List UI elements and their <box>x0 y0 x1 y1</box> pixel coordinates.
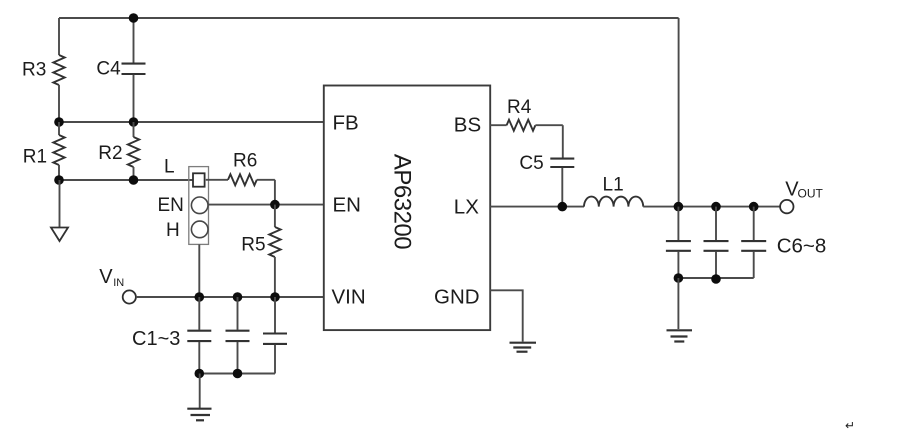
capacitor C3 <box>263 297 287 374</box>
ground (earth) input rail <box>187 374 211 421</box>
terminal VIN <box>99 266 136 304</box>
wire VIN rail to IC <box>136 296 324 298</box>
svg-text:C5: C5 <box>519 153 543 174</box>
resistor R2 <box>98 122 139 180</box>
svg-text:FB: FB <box>333 112 359 135</box>
wire R3 bottom stub <box>58 85 60 122</box>
capacitor C2 <box>226 297 250 374</box>
node dot L row / R2 <box>129 175 139 185</box>
svg-text:GND: GND <box>434 286 480 309</box>
node dot L row / R1 <box>54 175 64 185</box>
jumper pin EN (round pad) <box>191 197 208 214</box>
svg-text:R4: R4 <box>507 97 532 118</box>
capacitor C8 <box>741 207 766 278</box>
svg-text:C1~3: C1~3 <box>132 328 180 350</box>
svg-text:L: L <box>164 157 175 178</box>
resistor R1 <box>23 122 65 180</box>
terminal VOUT <box>780 178 823 213</box>
svg-text:R2: R2 <box>98 143 122 164</box>
node dot rail/C1 <box>195 369 205 379</box>
svg-text:H: H <box>166 220 180 241</box>
capacitor C4 <box>96 18 145 122</box>
resistor R6 <box>206 151 275 205</box>
wire EN row from jumper to IC <box>208 204 324 206</box>
node dot LX/C5 <box>558 202 568 212</box>
svg-text:↵: ↵ <box>845 419 855 433</box>
svg-text:LX: LX <box>454 196 479 219</box>
node dot top rail / C4 <box>129 13 139 23</box>
wire LX row from IC to L1 <box>490 206 584 208</box>
svg-text:L1: L1 <box>603 175 624 196</box>
svg-text:IN: IN <box>113 277 124 289</box>
svg-text:VIN: VIN <box>332 286 366 309</box>
ground (triangle) below R1 <box>51 180 68 241</box>
wire top rail from R3 branch to output feedback drop <box>59 17 679 19</box>
svg-text:R3: R3 <box>22 60 46 81</box>
svg-text:EN: EN <box>158 195 184 216</box>
wire GND pin to earth <box>490 290 523 341</box>
wire jumper bottom to VIN rail <box>198 244 200 297</box>
svg-text:V: V <box>99 266 113 288</box>
node dot FB/C4 <box>129 117 139 127</box>
resistor R5 <box>241 205 280 297</box>
inductor L1 <box>584 175 643 207</box>
wire R3 top stub <box>58 18 60 55</box>
svg-text:EN: EN <box>333 194 361 217</box>
resistor R3 <box>22 55 65 85</box>
wire FB row to IC <box>59 121 324 123</box>
jumper pin H (round pad) <box>191 221 208 238</box>
svg-text:R5: R5 <box>241 235 265 256</box>
svg-text:C4: C4 <box>96 59 121 80</box>
node dot VIN/C1 <box>195 292 205 302</box>
jumper JP1 body <box>189 167 209 245</box>
node dot LX/C7 <box>711 202 721 212</box>
svg-text:BS: BS <box>454 114 481 137</box>
node dot EN/R6/R5 <box>270 200 280 210</box>
capacitor C5 <box>519 125 574 206</box>
node dot VIN/C3 <box>270 292 280 302</box>
svg-text:R1: R1 <box>23 147 47 168</box>
node dot LX/feedback/C6 <box>674 202 684 212</box>
svg-text:AP63200: AP63200 <box>389 154 416 249</box>
node dot FB/R3 <box>54 117 64 127</box>
wire input cap bottom rail <box>199 373 275 375</box>
svg-text:OUT: OUT <box>798 187 824 201</box>
node dot out rail/C6 <box>674 273 684 283</box>
capacitor C6 <box>666 207 691 278</box>
jumper pin L (square pad) <box>193 173 205 186</box>
wire L row from R1 to jumper <box>59 179 193 181</box>
wire output cap bottom rail <box>678 277 753 279</box>
svg-text:R6: R6 <box>233 151 257 172</box>
capacitor C7 <box>704 207 729 278</box>
capacitor C1 <box>187 297 211 374</box>
node dot VIN/C2 <box>233 292 243 302</box>
ground (earth) GND pin <box>510 343 537 352</box>
wire L1 to VOUT terminal <box>643 206 780 208</box>
node dot rail/C2 <box>233 369 243 379</box>
wire feedback vertical drop on right <box>678 18 680 207</box>
resistor R4 <box>490 97 563 131</box>
svg-text:C6~8: C6~8 <box>777 235 827 258</box>
node dot LX/C8 <box>749 202 759 212</box>
node dot out rail/C7 <box>711 274 721 284</box>
op IC U1 AP63200 <box>324 86 490 331</box>
ground (earth) output rail <box>667 278 693 342</box>
